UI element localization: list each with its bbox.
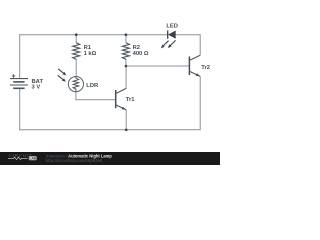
svg-text:1 kΩ: 1 kΩ (84, 51, 97, 57)
resistor R1 (73, 43, 80, 60)
wire battery negative to bottom rail (19, 88, 21, 130)
wire node B (R2 bottom to Tr2 base) (126, 65, 189, 67)
svg-text:LED: LED (166, 23, 178, 29)
svg-text:400 Ω: 400 Ω (133, 51, 149, 57)
svg-text:Tr1: Tr1 (126, 97, 135, 103)
wire bottom rail (19, 129, 201, 131)
wire R1 top stub (75, 35, 77, 43)
wire left (top wire down to battery) (19, 34, 21, 78)
junction node R2 bottom / Tr1 collector (125, 65, 128, 68)
junction node R1 top (75, 33, 78, 36)
wire Tr1 emitter vertical (125, 110, 127, 130)
LDR photoresistor (58, 69, 84, 92)
LED D1 (161, 30, 176, 48)
resistor R2 (122, 43, 129, 60)
footer bar (0, 152, 220, 165)
wire Tr2 collector rise (199, 35, 201, 56)
svg-text:http://circuitlab.com/c6pb4e8: http://circuitlab.com/c6pb4e8 (46, 158, 103, 163)
wire LDR to Tr1 base (76, 91, 116, 99)
svg-text:3 V: 3 V (32, 85, 41, 91)
transistor Tr2 (NPN) (189, 55, 200, 76)
wire top right (LED anode to Tr2 collector corner) (176, 34, 201, 36)
svg-text:Tr2: Tr2 (201, 65, 210, 71)
wire R1 to LDR (75, 59, 77, 77)
wire Tr1 collector vertical (125, 66, 127, 88)
wire top left (battery + to LED cathode) (19, 34, 168, 36)
CircuitLab logo (8, 153, 37, 160)
transistor Tr1 (NPN) (116, 88, 127, 110)
svg-text:LDR: LDR (86, 83, 99, 89)
svg-text:LAB: LAB (30, 156, 37, 160)
battery BAT 3V (10, 74, 28, 88)
junction node Tr1 emitter on bottom rail (125, 129, 128, 132)
wire Tr2 emitter drop (199, 76, 201, 130)
wire R2 top stub (125, 35, 127, 43)
junction node R2 top (125, 33, 128, 36)
wire R2 bottom stub (125, 59, 127, 66)
